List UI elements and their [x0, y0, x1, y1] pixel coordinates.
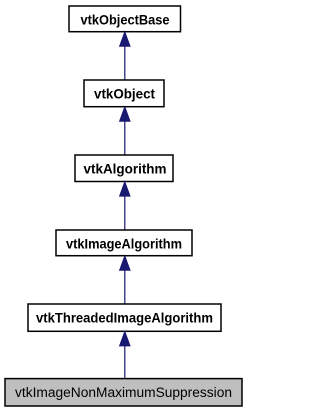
inheritance arrow vtkImageAlgorithm to vtkAlgorithm — [120, 182, 130, 230]
class box vtkImageAlgorithm — [56, 230, 192, 256]
inheritance arrow vtkImageNonMaximumSuppression to vtkThreadedImageAlgorithm — [120, 332, 130, 379]
class box vtkAlgorithm — [75, 155, 173, 182]
svg-text:vtkThreadedImageAlgorithm: vtkThreadedImageAlgorithm — [36, 310, 213, 326]
svg-text:vtkObjectBase: vtkObjectBase — [81, 11, 170, 27]
current class box vtkImageNonMaximumSuppression (grey filled) — [5, 379, 242, 406]
inheritance arrow vtkThreadedImageAlgorithm to vtkImageAlgorithm — [120, 256, 130, 304]
inheritance arrow vtkObject to vtkObjectBase — [120, 32, 130, 80]
class box vtkObjectBase — [69, 6, 181, 32]
class box vtkObject — [84, 80, 164, 107]
inheritance arrow vtkAlgorithm to vtkObject — [120, 107, 130, 155]
svg-text:vtkImageAlgorithm: vtkImageAlgorithm — [66, 235, 182, 251]
svg-text:vtkObject: vtkObject — [94, 86, 155, 102]
class box vtkThreadedImageAlgorithm — [28, 304, 221, 331]
svg-text:vtkAlgorithm: vtkAlgorithm — [84, 161, 167, 177]
svg-text:vtkImageNonMaximumSuppression: vtkImageNonMaximumSuppression — [15, 385, 232, 400]
